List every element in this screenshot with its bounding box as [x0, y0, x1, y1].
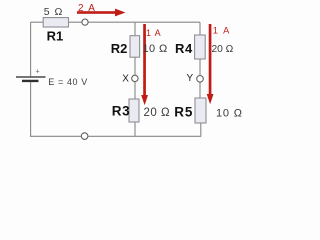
svg-text:R5: R5 [174, 105, 193, 120]
svg-text:X: X [122, 74, 129, 85]
svg-text:R4: R4 [175, 41, 193, 56]
svg-text:Y: Y [187, 73, 194, 84]
svg-text:+: + [36, 69, 40, 76]
svg-text:R1: R1 [47, 29, 64, 44]
svg-text:20 Ω: 20 Ω [212, 44, 234, 55]
svg-text:5 Ω: 5 Ω [44, 6, 64, 18]
svg-text:1 A: 1 A [146, 28, 161, 38]
svg-text:20 Ω: 20 Ω [144, 107, 171, 119]
svg-text:R3: R3 [112, 104, 130, 119]
svg-text:10 Ω: 10 Ω [216, 108, 243, 120]
svg-text:E = 40 V: E = 40 V [48, 77, 88, 87]
svg-text:2 A: 2 A [78, 3, 96, 14]
svg-text:1 A: 1 A [213, 26, 231, 36]
svg-text:10 Ω: 10 Ω [143, 43, 168, 55]
svg-text:R2: R2 [111, 41, 128, 56]
